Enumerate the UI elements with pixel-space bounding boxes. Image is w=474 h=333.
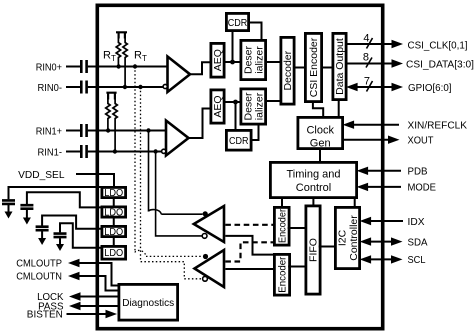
op-amp A4 (CML driver 2): [195, 250, 225, 287]
svg-text:XIN/REFCLK: XIN/REFCLK: [408, 120, 468, 132]
node amp3 dot output: [203, 211, 208, 216]
block CSI Encoder: [305, 33, 321, 101]
wire AEQ1 to Deser1: [224, 61, 241, 63]
wire CDR2 up to AEQ2-Deser2 net: [235, 102, 237, 130]
svg-text:VDD_SEL: VDD_SEL: [18, 169, 65, 181]
wire dashed amp4 to Encoder1: [225, 242, 274, 261]
wire BISTEN: [67, 313, 107, 315]
svg-text:Controller: Controller: [348, 215, 360, 261]
wire amp3 solid to Encoder2: [225, 236, 274, 255]
wire CSI Encoder bottom to Clock Gen: [313, 102, 323, 118]
block Data Output: [333, 33, 346, 99]
node amp4 bubble output: [203, 276, 208, 281]
node RIN1+ / RT junction: [106, 128, 110, 132]
slash 8: [366, 58, 372, 68]
block Encoder1: [274, 207, 289, 245]
svg-text:Data Output: Data Output: [334, 38, 346, 95]
block AEQ2: [211, 90, 224, 123]
wire amp1 output to AEQ1: [190, 62, 210, 74]
svg-text:Control: Control: [296, 182, 331, 194]
node amp4 dot output: [203, 254, 208, 259]
block LDO1: [102, 187, 126, 197]
wire Timing to FIFO: [312, 198, 314, 206]
wire XOUT: [343, 139, 389, 141]
wire Deser1 to Decoder: [266, 61, 281, 63]
block Timing and Control: [270, 162, 356, 197]
wire Clock Gen to Timing: [319, 149, 321, 163]
block Decoder: [281, 37, 294, 104]
wire SDA bidirectional: [371, 241, 392, 243]
svg-text:RIN0+: RIN0+: [36, 61, 62, 73]
node RIN1- loopback tap: [153, 149, 157, 153]
capacitor C-RIN1+: [81, 124, 86, 137]
node RIN1+ loopback tap: [146, 128, 150, 132]
svg-text:CSI_DATA[3:0]: CSI_DATA[3:0]: [406, 59, 474, 71]
svg-text:Diagnostics: Diagnostics: [122, 297, 174, 309]
svg-text:Decoder: Decoder: [282, 50, 294, 90]
node RIN0- / RT junction: [123, 85, 127, 89]
svg-text:ializer: ializer: [254, 92, 266, 120]
node RIN0+ loopback tap: [133, 64, 137, 68]
svg-text:CSI Encoder: CSI Encoder: [308, 37, 320, 97]
slash 7: [367, 81, 373, 92]
block AEQ1: [211, 43, 224, 77]
wire RIN0+ line: [66, 66, 168, 68]
wire PASS: [80, 305, 119, 307]
wire RIN1+ line: [66, 130, 166, 132]
wire VDD_SEL: [76, 174, 114, 187]
wire PDB: [368, 170, 401, 172]
wire RIN1- line: [66, 151, 162, 153]
wire CMLOUTP: [79, 263, 118, 286]
wire Timing to I2C: [354, 198, 356, 208]
svg-text:Clock: Clock: [306, 125, 334, 137]
svg-text:8: 8: [363, 52, 369, 64]
capacitor C2 external: [27, 192, 101, 207]
wire RIN1+ tap down to amp3 dot: [148, 131, 150, 212]
block Clock Gen: [298, 117, 343, 148]
svg-text:4: 4: [363, 33, 369, 45]
block I2C Controller: [335, 207, 359, 268]
resistor RT2 (RIN0 pair, right): [123, 39, 127, 88]
svg-text:RIN0-: RIN0-: [38, 82, 63, 94]
block CDR2: [226, 130, 251, 150]
node CDR1 junction: [230, 60, 235, 65]
wire Deser2 to Decoder: [266, 100, 281, 102]
svg-text:RIN1+: RIN1+: [36, 125, 62, 137]
wire dotted RIN0- tap down to amp4 bubble: [141, 87, 203, 279]
svg-text:LDO: LDO: [104, 188, 123, 199]
wire GPIO bidirectional: [357, 86, 392, 88]
wire MODE: [368, 186, 401, 188]
block Encoder2: [274, 254, 289, 295]
block CDR1: [226, 13, 248, 30]
wire RIN1- tap down to amp3 bubble: [156, 152, 203, 236]
wire LDO3-LDO4: [113, 238, 115, 247]
wire CMLOUTN: [79, 276, 118, 291]
wire SCL bidirectional: [371, 258, 392, 260]
svg-text:CSI_CLK[0,1]: CSI_CLK[0,1]: [408, 40, 468, 52]
svg-text:BISTEN: BISTEN: [27, 309, 63, 321]
svg-text:LDO: LDO: [104, 248, 123, 259]
wire XIN/REFCLK: [354, 124, 399, 126]
slash 4: [367, 38, 373, 49]
wire CSI Encoder to Data Output: [322, 67, 333, 69]
wire Data Output bottom to Clock Gen: [338, 100, 340, 118]
svg-text:LDO: LDO: [104, 227, 123, 238]
capacitor C3 external: [42, 216, 100, 229]
wire CDR2 right into Deser2 bottom: [251, 124, 258, 140]
svg-text:Timing and: Timing and: [286, 169, 340, 181]
svg-text:Encoder: Encoder: [277, 256, 289, 292]
svg-text:LDO: LDO: [104, 208, 123, 219]
svg-text:RIN1-: RIN1-: [38, 146, 63, 158]
wire LOCK: [80, 296, 119, 298]
wire LDO2-LDO3: [113, 218, 115, 226]
wire FIFO to I2C: [319, 246, 336, 248]
svg-text:MODE: MODE: [408, 182, 437, 194]
wire amp2 output to AEQ2: [189, 109, 210, 139]
block Deserializer2: [241, 89, 266, 124]
svg-text:I2C: I2C: [337, 229, 349, 246]
chip outer box: [97, 5, 382, 328]
node RIN0+ / RT junction: [116, 64, 120, 68]
wire CDR1 down to AEQ1-Deser1 net: [232, 31, 234, 62]
svg-text:PDB: PDB: [408, 166, 428, 178]
svg-text:ializer: ializer: [254, 46, 266, 74]
svg-text:CMLOUTN: CMLOUTN: [16, 271, 62, 283]
capacitor C-RIN0+: [81, 60, 86, 73]
svg-text:AEQ: AEQ: [212, 95, 224, 117]
svg-text:CDR: CDR: [228, 17, 248, 29]
block Deserializer1: [241, 40, 266, 79]
op-amp A3 (CML driver 1): [194, 206, 224, 242]
wire CDR1 right into Deser1 top: [249, 23, 262, 41]
svg-text:IDX: IDX: [408, 216, 425, 228]
wire amp4 solid to Encoder2: [225, 268, 274, 270]
resistor RT4 (RIN1 pair, right): [113, 100, 117, 152]
wire CSI_DATA: [346, 63, 392, 65]
svg-text:SDA: SDA: [408, 236, 428, 248]
svg-text:Encoder: Encoder: [276, 209, 288, 243]
wire dotted RIN0+ tap down to amp4 dot: [134, 67, 136, 253]
svg-text:AEQ: AEQ: [212, 49, 224, 71]
svg-text:GPIO[6:0]: GPIO[6:0]: [408, 82, 452, 94]
wire dashed amp3 to Encoder1: [225, 224, 274, 226]
resistor RT1 (RIN0 pair, left): [116, 32, 127, 38]
capacitor C-RIN1-: [81, 145, 86, 158]
wire IDX: [371, 220, 403, 222]
wire Timing to Encoder1: [281, 198, 283, 208]
node RIN1- / RT junction: [113, 149, 117, 153]
block Diagnostics: [119, 284, 178, 320]
svg-text:XOUT: XOUT: [408, 135, 435, 147]
block LDO4: [102, 246, 126, 259]
svg-text:7: 7: [364, 76, 370, 88]
block LDO3: [102, 226, 126, 236]
wire LDO1-LDO2: [113, 199, 115, 207]
block FIFO: [306, 206, 320, 294]
capacitor C4 external: [60, 223, 101, 248]
svg-text:FIFO: FIFO: [308, 238, 320, 262]
wire Encoder1 to FIFO: [288, 227, 306, 229]
node RIN0- loopback tap: [138, 85, 142, 89]
capacitor C-RIN0-: [81, 81, 86, 94]
node amp3 bubble output: [202, 234, 207, 239]
svg-text:SCL: SCL: [408, 254, 426, 266]
wire AEQ2 to Deser2: [224, 101, 241, 103]
op-amp A1 (RIN0 input buffer): [168, 57, 191, 93]
svg-text:CMLOUTP: CMLOUTP: [16, 258, 62, 270]
resistor RT3 (RIN1 pair, left): [106, 93, 116, 100]
wire Decoder to CSI Encoder: [294, 67, 305, 69]
block LDO2: [102, 207, 126, 217]
node CDR2 junction: [233, 100, 238, 105]
op-amp A2 (RIN1 input buffer): [166, 121, 189, 156]
svg-text:CDR: CDR: [229, 135, 249, 147]
capacitor C1 external: [9, 187, 101, 199]
svg-text:Gen: Gen: [310, 138, 331, 150]
wire Encoder2 to FIFO: [288, 266, 306, 268]
wire RIN0- line: [66, 86, 163, 88]
wire CSI_CLK: [346, 43, 392, 45]
